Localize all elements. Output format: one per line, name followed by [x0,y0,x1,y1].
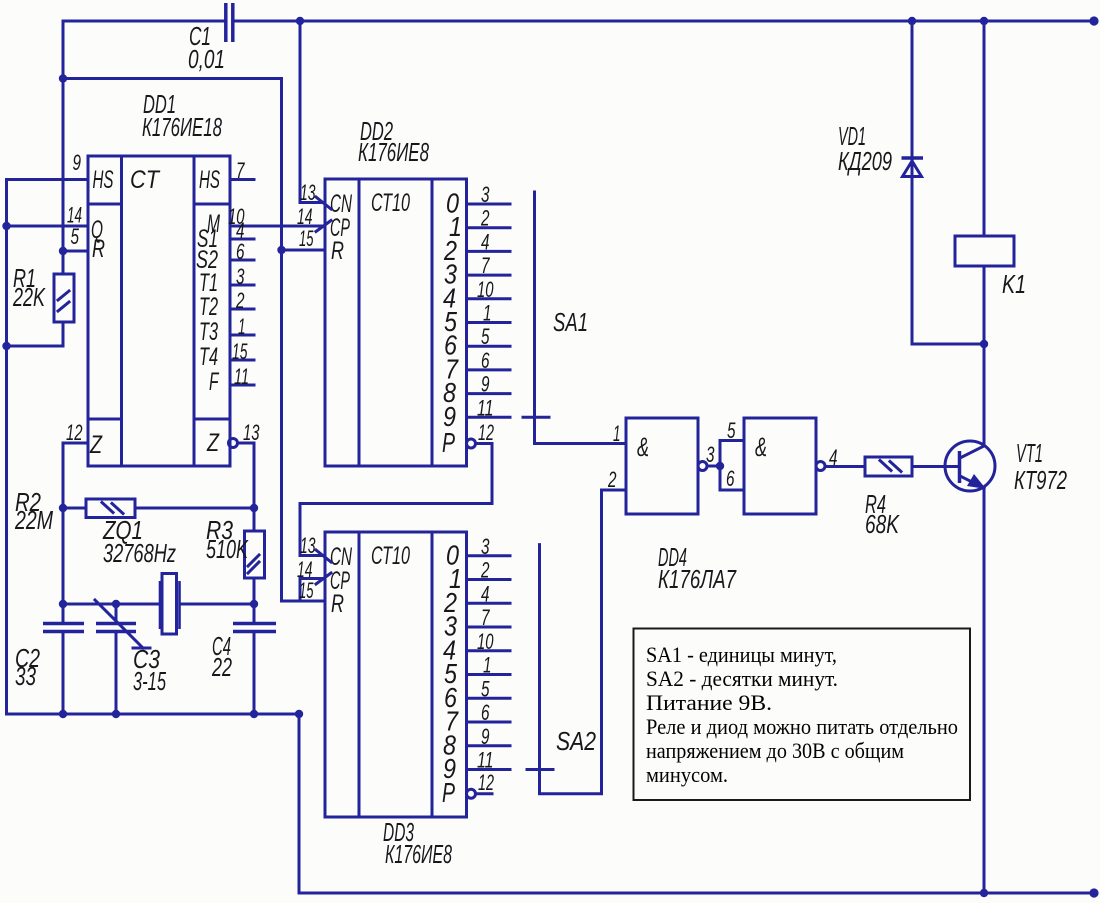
resistor R3 510K [245,531,265,578]
node top rail / VD1 branch [908,17,916,25]
wire reset bus vertical x281 down to DD3 R [282,79,326,602]
svg-text:&: & [637,432,649,462]
svg-text:1: 1 [483,301,492,326]
svg-text:Реле и диод можно питать отдел: Реле и диод можно питать отдельно [646,714,958,739]
DD2 output stubs pins 3,2,4,7,10,1,5,6,9,11 [467,203,511,206]
wire DD2 R pin15 [282,249,326,252]
svg-text:10: 10 [477,277,494,302]
wire DD1 M pin10 to DD2 CP pin14 [230,225,325,228]
svg-text:К176ЛА7: К176ЛА7 [658,564,737,594]
wire DD2 CN from top rail [300,21,325,203]
wire DD1 pin14 [7,225,89,228]
svg-text:510K: 510K [206,534,249,564]
wire oscillator ground line y714 [7,713,300,716]
svg-text:9: 9 [481,372,490,397]
capacitor C2 33 [43,622,84,626]
node R2 right [250,504,258,512]
note box [634,629,971,801]
pin13 inverter circle [229,439,238,448]
svg-text:R: R [92,235,105,263]
node x299 bottom branch [295,710,303,718]
node crystal line right [250,600,258,608]
svg-text:11: 11 [234,364,249,389]
node top rail / K1 branch [980,17,988,25]
svg-text:R: R [331,237,344,265]
svg-text:6: 6 [726,466,735,491]
node C4 bottom [250,710,258,718]
svg-text:6: 6 [481,700,490,725]
svg-text:минусом.: минусом. [646,762,728,787]
svg-text:T3: T3 [199,318,218,346]
capacitor C1 [224,3,228,42]
svg-text:4: 4 [829,445,838,470]
svg-text:СТ10: СТ10 [371,542,410,570]
svg-text:T2: T2 [199,293,218,321]
DD1 right pin stubs [230,178,254,181]
svg-text:К176ИЕ8: К176ИЕ8 [358,137,429,167]
svg-text:5: 5 [481,676,490,701]
svg-text:К176ИЕ18: К176ИЕ18 [142,112,222,142]
wire DD1 pin9 to left rail [7,178,89,181]
node C3 top [112,600,120,608]
node second rail junction [59,74,67,82]
svg-text:Z: Z [89,431,102,459]
transistor VT1 KT972 [945,441,995,491]
svg-text:КТ972: КТ972 [1014,465,1067,495]
VT1 emitter arrow [967,474,986,489]
node left rail R1 bottom [2,342,10,350]
svg-text:12: 12 [478,420,494,445]
svg-text:F: F [209,368,220,396]
node top rail / DD2 CN branch [296,17,304,25]
svg-text:3: 3 [481,182,490,207]
svg-text:7: 7 [481,253,490,278]
node minus terminal [1089,888,1098,897]
svg-text:3: 3 [236,264,245,289]
svg-text:22M: 22M [14,505,53,535]
svg-text:T4: T4 [199,343,218,371]
wire top +9V rail left segment [63,20,224,23]
wire bottom minus rail [299,714,1094,893]
node VT1 emitter bottom [980,889,988,897]
node left rail pin14 [2,222,10,230]
svg-text:13: 13 [243,420,260,445]
svg-text:СТ10: СТ10 [371,189,410,217]
svg-text:HS: HS [93,166,114,194]
resistor R1 22K [62,251,65,274]
svg-text:R: R [331,590,344,618]
DD3 P output pin12 [467,789,476,798]
svg-text:2: 2 [607,467,616,492]
svg-text:9: 9 [481,724,490,749]
svg-text:SA2 - десятки минут.: SA2 - десятки минут. [646,666,838,691]
IC DD3 K176IE8 counter box [325,532,467,817]
DD2 dynamic input slashes [316,197,331,209]
svg-text:SA1 - единицы минут,: SA1 - единицы минут, [646,642,837,667]
DD3 dynamic input slashes [316,550,331,562]
node crystal line left [59,600,67,608]
node R2 left [59,504,67,512]
wire second rail y78 to reset bus [63,77,282,80]
IC DD1 K176IE18 counter box [88,156,230,466]
svg-text:4: 4 [481,581,490,606]
svg-text:2: 2 [235,288,244,313]
resistor R2 22M [63,507,86,510]
wire left rail vertical [5,180,8,715]
svg-text:13: 13 [300,533,316,558]
svg-text:68K: 68K [865,509,900,539]
svg-text:13: 13 [300,180,316,205]
svg-text:12: 12 [478,770,494,795]
wire crystal line [63,603,158,606]
svg-text:3-15: 3-15 [133,666,166,696]
svg-text:7: 7 [481,605,490,630]
svg-text:12: 12 [66,420,83,445]
svg-text:1: 1 [483,653,492,678]
capacitor C4 22 [233,622,276,626]
wire left vertical from top rail to DD1 pin5 [62,21,65,251]
svg-text:10: 10 [477,629,494,654]
svg-text:&: & [755,432,767,462]
node DD1 pin5 / R1 top [59,247,67,255]
wire gate2 out to R4 [825,465,865,468]
DD3 output stubs pins 3,2,4,7,10,1,5,6,9,11 [467,554,511,557]
DD2 P output pin12 [467,439,476,448]
svg-text:11: 11 [477,395,494,420]
svg-text:P: P [442,427,455,458]
wire DD1 pin13 to x254 vertical [238,443,254,531]
svg-text:Питание 9В.: Питание 9В. [646,690,772,715]
wire top +9V rail right segment [235,20,1095,23]
svg-text:P: P [442,777,455,808]
logic gate DD4.1 [626,418,698,514]
svg-text:HS: HS [199,166,220,194]
node +9V terminal [1089,16,1098,25]
node C2 bottom [59,710,67,718]
wire DD3 CP jog [300,579,325,602]
svg-text:7: 7 [236,158,245,183]
svg-text:5: 5 [481,324,490,349]
svg-text:15: 15 [299,578,314,603]
logic gate DD4.2 [744,418,816,514]
svg-text:0,01: 0,01 [188,44,225,74]
svg-text:К176ИЕ8: К176ИЕ8 [385,839,452,869]
svg-text:напряжением до 30В с общим: напряжением до 30В с общим [646,738,904,763]
IC DD2 K176IE8 counter box [325,179,467,466]
gate DD4.2 output circle [816,462,825,471]
svg-text:15: 15 [232,339,248,364]
resistor R4 68K [865,457,912,476]
wire VT1 emitter down [983,487,986,893]
svg-text:11: 11 [477,748,494,773]
switch SA2 [527,768,553,771]
svg-text:VT1: VT1 [1016,438,1043,468]
svg-text:9: 9 [73,150,82,175]
svg-text:2: 2 [480,206,489,231]
diode VD1 KD209 [911,21,914,157]
svg-text:6: 6 [481,348,490,373]
svg-text:2: 2 [480,558,489,583]
svg-text:4: 4 [481,229,490,254]
svg-text:22: 22 [211,652,232,682]
svg-text:1: 1 [238,314,246,339]
relay K1 [983,21,986,236]
gate DD4.1 output circle [698,462,707,471]
svg-text:22K: 22K [12,282,46,312]
svg-text:32768Hz: 32768Hz [103,538,176,568]
svg-text:5: 5 [727,418,736,443]
svg-text:K1: K1 [1002,269,1026,299]
node C3 bottom [112,710,120,718]
svg-text:CT: CT [130,166,161,194]
trimmer capacitor C3 3-15 [115,604,118,621]
switch SA1 [523,416,549,419]
wire x63 lower vertical pin12 to C2 [62,443,65,621]
svg-text:6: 6 [236,239,245,264]
wire DD1 pin5 [63,250,88,253]
svg-text:SA1: SA1 [553,307,588,337]
svg-text:КД209: КД209 [838,146,892,176]
crystal ZQ1 32768Hz [159,581,162,629]
wire DD1 pin12 Z [63,442,88,445]
svg-text:5: 5 [71,224,80,249]
node DD2 R junction [277,246,285,254]
svg-text:15: 15 [299,226,314,251]
svg-text:1: 1 [613,421,621,446]
svg-text:Z: Z [206,429,219,457]
svg-text:SA2: SA2 [556,726,596,756]
svg-text:3: 3 [481,534,490,559]
svg-text:33: 33 [15,661,36,691]
wire gate1 out to gate2 inputs [707,465,720,468]
svg-text:3: 3 [706,442,715,467]
